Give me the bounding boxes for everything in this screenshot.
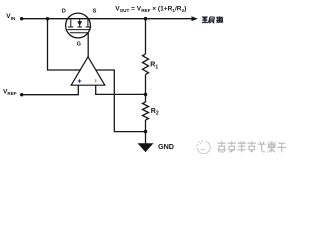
- wire op-amp right edge to ground rail: [96, 70, 146, 132]
- op-amp - input sign (rotated, vertical bar): [95, 79, 97, 82]
- node VIN terminal dot: [20, 17, 23, 20]
- wire divider rail VOUT node to R1 top: [145, 19, 147, 54]
- arrow to load: [192, 16, 198, 21]
- svg-text:S: S: [93, 8, 97, 14]
- wire left supply from node A down to op-amp left edge: [48, 19, 81, 70]
- wire ground stub: [145, 132, 147, 144]
- watermark text 菠萝草莓芒果干 drawn strokes: [218, 141, 286, 152]
- transistor Q1 drain contact: [70, 19, 72, 27]
- op-amp U1 triangle: [71, 57, 105, 85]
- node VREF terminal dot: [20, 93, 23, 96]
- wire op-amp - input to feedback node: [96, 85, 146, 94]
- wire R1 bottom to feedback node: [145, 74, 147, 94]
- transistor Q1 source contact: [87, 19, 89, 27]
- transistor Q1 pass PMOS body circle: [66, 13, 91, 38]
- node VOUT junction dot: [144, 17, 148, 21]
- label 至负载 (to load) drawn strokes: [202, 16, 223, 23]
- wire VREF to op-amp + input: [22, 85, 79, 95]
- node A junction dot: [46, 17, 49, 20]
- resistor R1: [143, 54, 149, 74]
- svg-text:GND: GND: [158, 142, 174, 151]
- resistor R2: [143, 102, 149, 120]
- op-amp + input sign: [78, 79, 81, 82]
- wire gate lead MOSFET G to op-amp output apex: [87, 33, 89, 58]
- node feedback junction dot: [144, 93, 148, 97]
- watermark logo emblem: [196, 140, 210, 154]
- transistor Q1 body arrow lead: [79, 19, 81, 27]
- wire top rail VIN to load arrow: [22, 18, 193, 20]
- node ground junction dot: [144, 130, 148, 134]
- ground: [138, 143, 154, 152]
- transistor Q1 gate plate: [70, 32, 89, 34]
- wire feedback node to R2 top: [145, 94, 147, 102]
- svg-text:D: D: [62, 8, 66, 14]
- wire R2 bottom to ground node: [145, 120, 147, 132]
- transistor Q1 channel line: [67, 29, 90, 31]
- svg-text:G: G: [77, 41, 81, 47]
- transistor Q1 body arrow head: [77, 21, 82, 25]
